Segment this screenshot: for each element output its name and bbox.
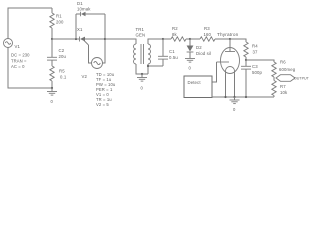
- svg-text:200: 200: [56, 20, 64, 25]
- wire secondary top to rail: [148, 39, 163, 44]
- capacitor C2: [47, 39, 67, 66]
- svg-text:GEN: GEN: [136, 33, 146, 38]
- ground bottom: [230, 97, 240, 112]
- pulse source V2: [82, 39, 116, 107]
- svg-text:10k: 10k: [280, 90, 288, 95]
- wire C1 bottom to secondary: [148, 65, 163, 67]
- svg-text:D2: D2: [196, 45, 202, 50]
- svg-text:V1: V1: [15, 44, 21, 49]
- wire grid to Detect box: [212, 62, 217, 82]
- wire R4 node to R6: [246, 60, 274, 62]
- svg-text:0.1: 0.1: [60, 74, 67, 79]
- svg-text:Diod sil: Diod sil: [196, 51, 211, 56]
- diode D1: [77, 1, 91, 16]
- svg-text:DC = 230: DC = 230: [11, 53, 30, 58]
- voltage source V1: [4, 39, 31, 70]
- resistor R4: [244, 42, 258, 60]
- resistor R3: [200, 26, 215, 41]
- ground left: [47, 88, 57, 104]
- svg-text:R1: R1: [56, 14, 62, 19]
- svg-text:C1: C1: [169, 49, 175, 54]
- svg-text:500p: 500p: [252, 70, 263, 75]
- node junction D1 branch left: [75, 38, 77, 40]
- svg-text:C2: C2: [59, 48, 65, 53]
- wire R3 to anode node: [215, 38, 230, 40]
- svg-text:37: 37: [253, 49, 259, 54]
- svg-text:R2: R2: [172, 26, 178, 31]
- wire X1 to node: [85, 38, 105, 40]
- svg-text:Detect: Detect: [188, 80, 202, 85]
- node junction C3 bottom: [245, 96, 247, 98]
- svg-text:TR1: TR1: [136, 27, 145, 32]
- wire V1 bottom to ground rail: [8, 48, 52, 89]
- node junction secondary bottom tap: [147, 65, 149, 67]
- svg-text:R5: R5: [59, 69, 65, 74]
- wire main line to X1: [52, 38, 79, 40]
- resistor R5: [50, 66, 67, 88]
- svg-text:20u: 20u: [59, 54, 67, 59]
- Detect box: [184, 76, 212, 98]
- node junction ground left: [51, 87, 53, 89]
- wire node to transformer primary: [105, 39, 136, 44]
- capacitor C1: [158, 39, 178, 66]
- svg-text:600meg: 600meg: [279, 67, 296, 72]
- wire V1 top to top rail: [8, 8, 52, 39]
- node junction D2 top: [189, 38, 191, 40]
- svg-text:X1: X1: [77, 27, 83, 32]
- wire anode node to R4 corner: [230, 39, 246, 42]
- svg-text:160: 160: [204, 32, 212, 37]
- tube U1 Thyratron: [217, 32, 240, 97]
- svg-text:8k: 8k: [172, 32, 178, 37]
- bottom rail: [212, 96, 274, 98]
- svg-text:C3: C3: [252, 64, 258, 69]
- svg-text:R7: R7: [280, 84, 286, 89]
- wire D1 branch top left: [76, 13, 81, 15]
- svg-text:0.5u: 0.5u: [169, 55, 178, 60]
- svg-text:Thyratron: Thyratron: [217, 32, 239, 37]
- resistor R7: [272, 81, 288, 98]
- wire R2 to D2 node: [186, 38, 190, 40]
- node junction tube anode: [229, 38, 231, 40]
- svg-text:R4: R4: [252, 44, 258, 49]
- node OUTPUT: [276, 75, 310, 82]
- resistor R1: [50, 8, 64, 39]
- node junction cathode right: [233, 96, 235, 98]
- wire D1 branch left vertical: [75, 14, 77, 39]
- svg-text:V2 = 5: V2 = 5: [96, 102, 109, 107]
- node junction cathode left: [224, 96, 226, 98]
- wire D2 node to R3: [190, 38, 200, 40]
- wire rail to R2: [163, 38, 171, 40]
- diode D2: [187, 39, 211, 58]
- wire secondary bottom: [147, 64, 149, 74]
- wire primary bottom: [136, 64, 148, 74]
- svg-text:R6: R6: [280, 60, 286, 65]
- capacitor C3: [241, 60, 263, 97]
- node junction at X1 cathode / V2 / D1: [104, 38, 106, 40]
- thyristor X1: [77, 27, 89, 45]
- node junction R4 bottom: [245, 59, 247, 61]
- node junction transformer center bottom: [141, 73, 143, 75]
- svg-text:TRAN =: TRAN =: [11, 58, 27, 63]
- svg-text:V2: V2: [82, 74, 88, 79]
- svg-text:D1: D1: [77, 1, 83, 6]
- svg-text:AC = 0: AC = 0: [11, 64, 25, 69]
- ground transformer: [137, 74, 147, 91]
- wire D1 branch right vertical: [104, 14, 106, 39]
- wire D1 branch top right: [86, 13, 106, 15]
- node junction at R1 bottom: [51, 38, 53, 40]
- svg-text:10mak: 10mak: [77, 7, 91, 12]
- ground D2: [185, 59, 195, 71]
- node junction C1 top: [162, 38, 164, 40]
- svg-text:R3: R3: [204, 26, 210, 31]
- resistor R6: [272, 60, 296, 81]
- resistor R2: [171, 26, 186, 41]
- transformer TR1: [134, 27, 151, 64]
- svg-text:OUTPUT: OUTPUT: [294, 77, 310, 81]
